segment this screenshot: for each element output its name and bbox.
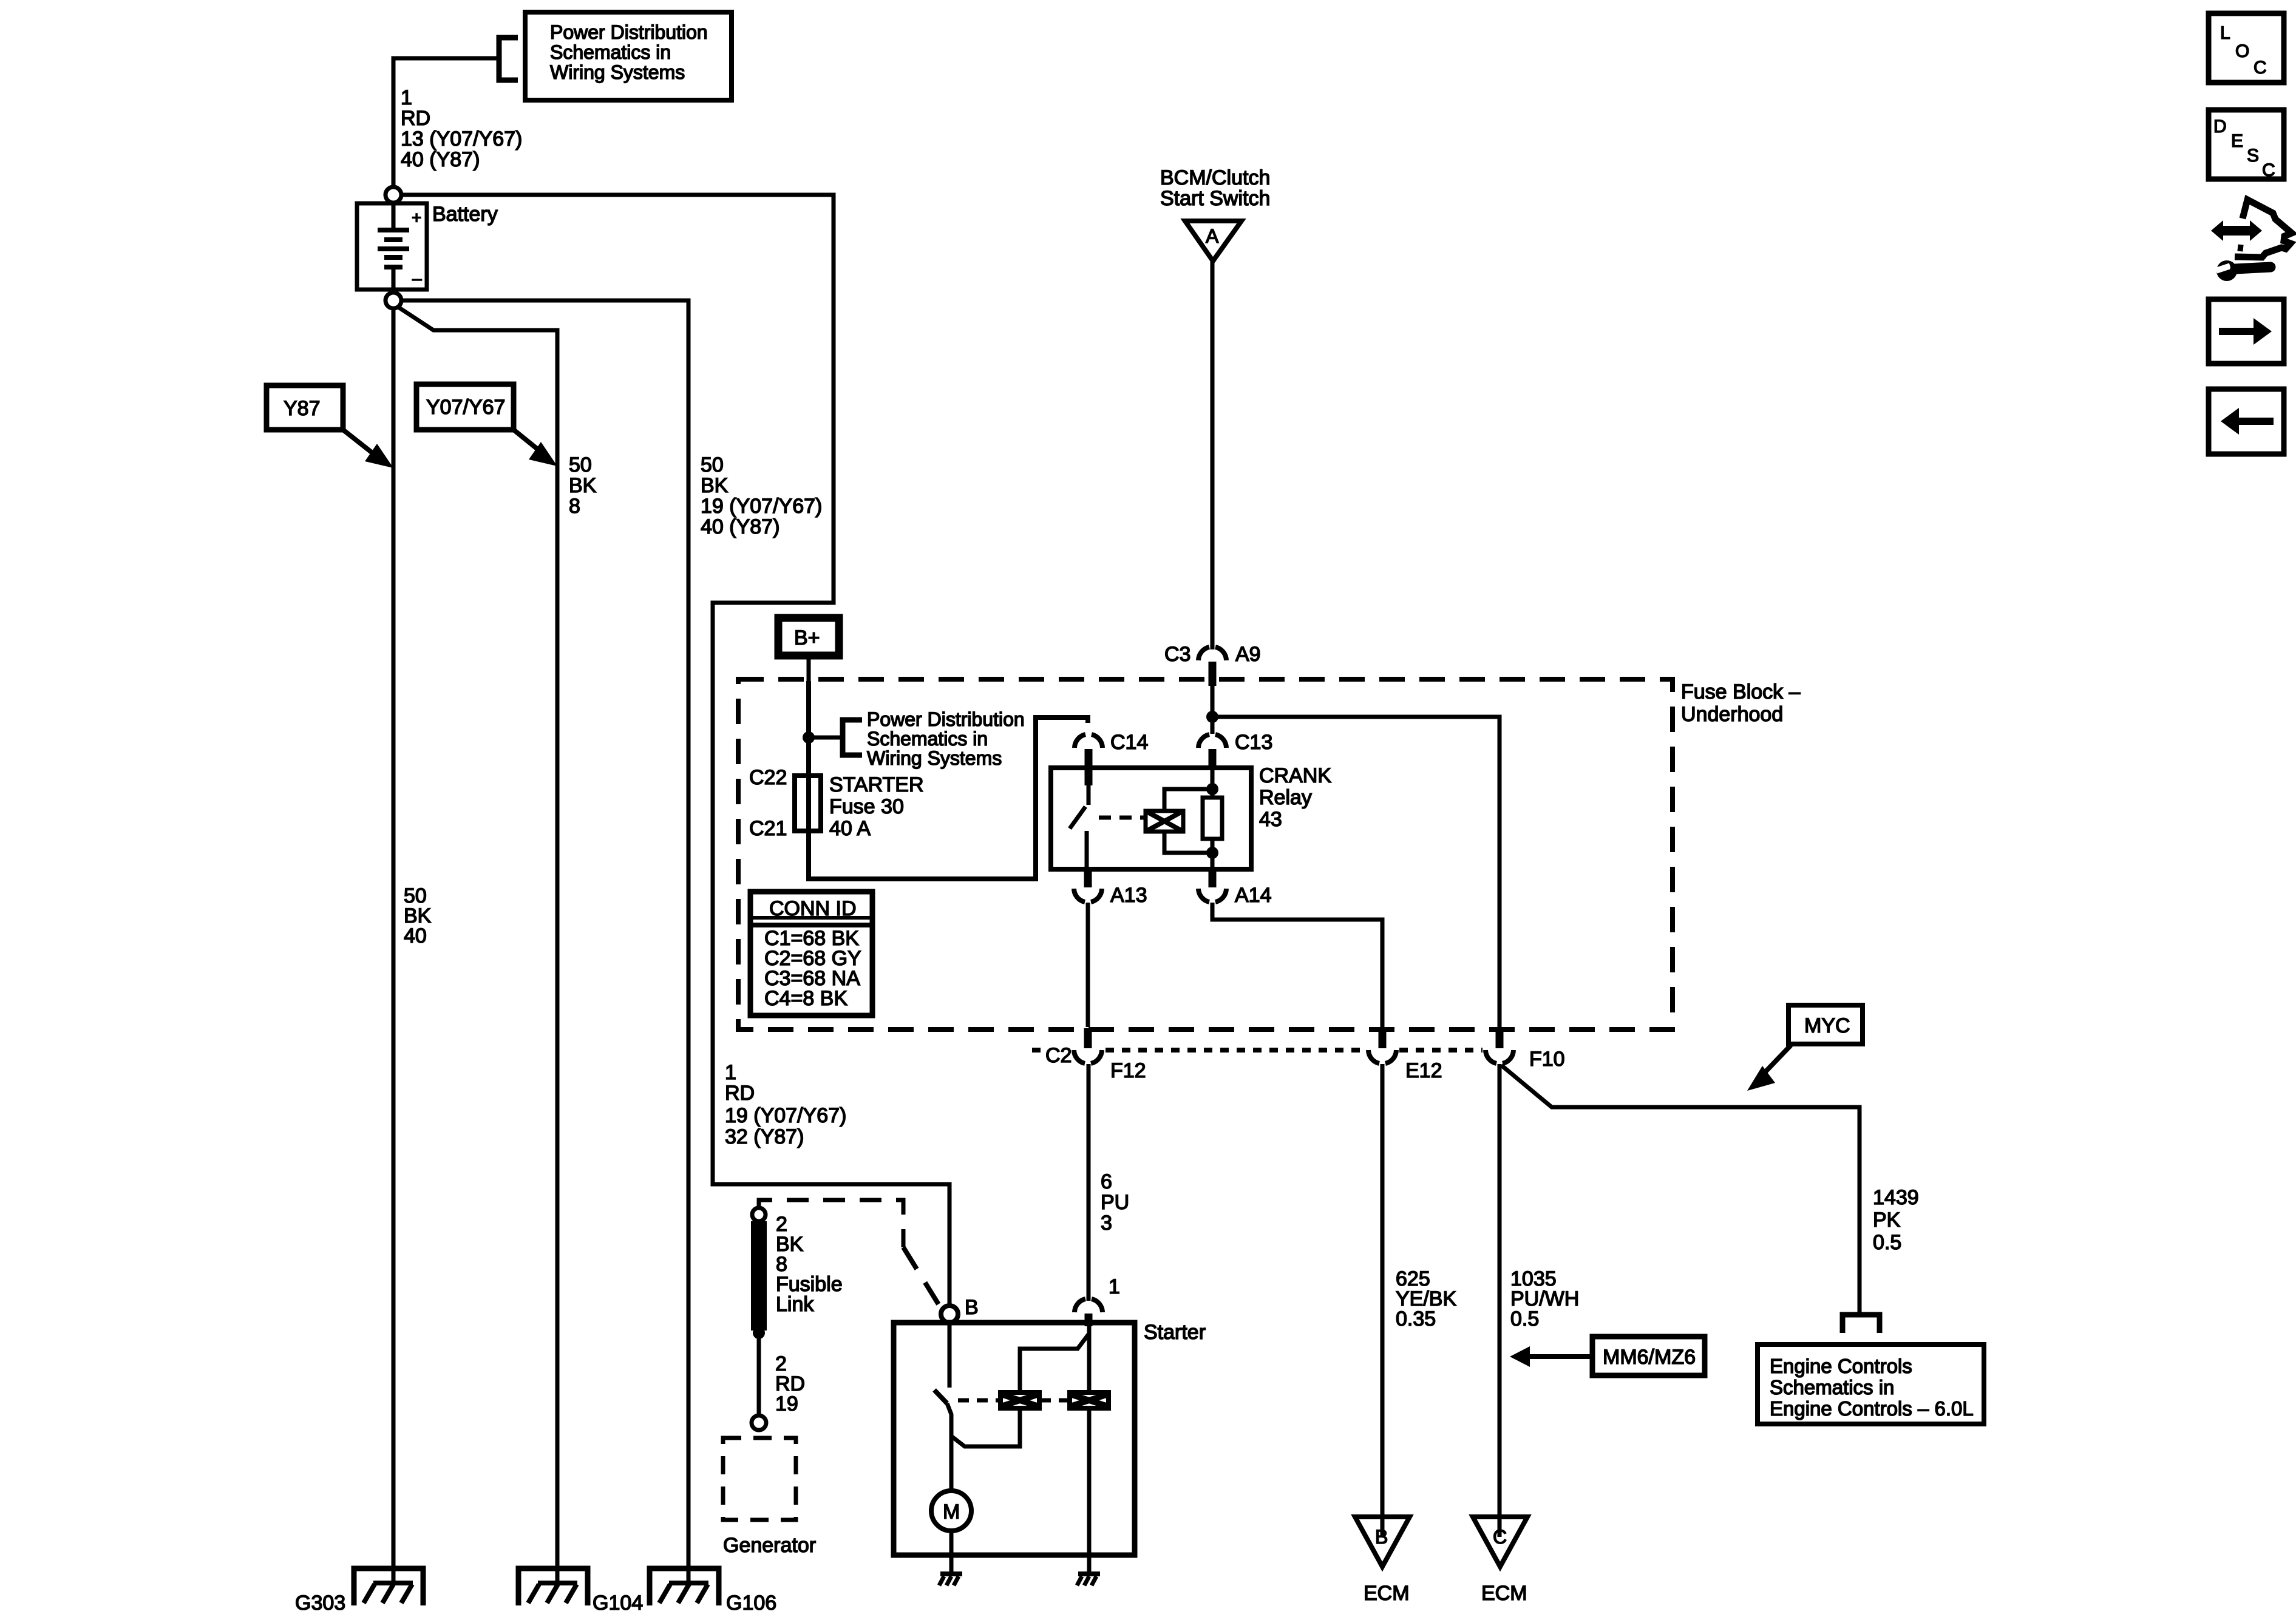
svg-text:M: M bbox=[943, 1500, 960, 1524]
label 2 RD 19 bbox=[775, 1352, 805, 1415]
wire F10 down to C ECM bbox=[1498, 1064, 1502, 1537]
wire terminal 1 into solenoid coils bbox=[1020, 1326, 1089, 1392]
wire pull-in coil to motor node bbox=[951, 1409, 1020, 1446]
svg-text:6: 6 bbox=[1101, 1170, 1112, 1193]
svg-text:A13: A13 bbox=[1110, 884, 1147, 907]
connector A13 bbox=[1074, 869, 1147, 907]
svg-text:Relay: Relay bbox=[1259, 786, 1312, 809]
icon vehicle outline with double arrow and wrench bbox=[2211, 200, 2292, 281]
svg-text:B: B bbox=[1375, 1526, 1388, 1548]
wire E12 down to B ECM bbox=[1381, 1064, 1385, 1537]
wire A14 to E12 drop bbox=[1212, 903, 1382, 1027]
off-page triangle B (ECM) bbox=[1355, 1517, 1410, 1605]
connector 1 (starter solenoid terminal) bbox=[1075, 1275, 1120, 1326]
svg-text:Starter: Starter bbox=[1144, 1321, 1206, 1344]
wire B+ down through fuse bbox=[806, 681, 811, 776]
tag MYC with arrow bbox=[1747, 1005, 1863, 1091]
wire battery positive to B+ feed (right and down and left and down to starter B) bbox=[401, 195, 949, 1306]
svg-text:B: B bbox=[965, 1296, 979, 1319]
wire F10 branch to engine controls bbox=[1501, 1065, 1860, 1315]
ground G106 bbox=[650, 1568, 719, 1605]
svg-text:B+: B+ bbox=[794, 626, 820, 649]
svg-text:13 (Y07/Y67): 13 (Y07/Y67) bbox=[401, 127, 522, 151]
svg-text:MYC: MYC bbox=[1804, 1014, 1850, 1037]
svg-text:F10: F10 bbox=[1529, 1048, 1565, 1071]
reference box: Engine Controls Schematics in Engine Controls - 6.0L bbox=[1758, 1344, 1984, 1424]
svg-text:Link: Link bbox=[776, 1293, 814, 1316]
connector C13 bbox=[1198, 731, 1272, 768]
relay actuation dashed link bbox=[1099, 816, 1146, 820]
svg-text:0.5: 0.5 bbox=[1510, 1307, 1539, 1331]
svg-text:Start Switch: Start Switch bbox=[1160, 187, 1270, 210]
svg-text:A9: A9 bbox=[1235, 643, 1261, 666]
connector C3/A9 bbox=[1164, 643, 1261, 686]
starter solenoid actuation dashes bbox=[958, 1398, 1069, 1403]
wire junction to bracket bbox=[809, 736, 843, 740]
svg-text:C22: C22 bbox=[749, 766, 787, 789]
BCM/Clutch Start Switch label bbox=[1160, 166, 1270, 210]
junction nodes in relay bbox=[1206, 783, 1218, 795]
icon forward arrow box bbox=[2209, 299, 2284, 364]
svg-text:E12: E12 bbox=[1405, 1059, 1442, 1082]
tag Y87 with arrow bbox=[267, 385, 393, 468]
svg-text:PU: PU bbox=[1101, 1191, 1129, 1214]
generator node circle bbox=[752, 1415, 766, 1430]
svg-text:Generator: Generator bbox=[723, 1534, 816, 1557]
icon back arrow box bbox=[2209, 389, 2284, 454]
wire label 1035 PU/WH 0.5 bbox=[1510, 1267, 1579, 1331]
svg-text:C2: C2 bbox=[1045, 1044, 1072, 1067]
wire label 50 BK 8 (G104 wire) bbox=[569, 453, 597, 518]
starter box bbox=[894, 1323, 1135, 1555]
wire junction to F10 drop bbox=[1212, 717, 1500, 1027]
tag MM6/MZ6 with arrow bbox=[1510, 1337, 1705, 1375]
wire battery negative to G104 (diagonal, right, down) bbox=[398, 307, 557, 1583]
reference text: Power Distribution Schematics in Wiring Systems (fuse block) bbox=[867, 708, 1025, 769]
fuse block underhood dashed border bbox=[738, 679, 1673, 1029]
starter B node circle bbox=[941, 1306, 958, 1323]
bracket to Power Distribution schematic (top) bbox=[499, 38, 518, 80]
svg-text:G303: G303 bbox=[295, 1592, 345, 1615]
label 2 BK 8 Fusible Link bbox=[776, 1213, 843, 1316]
svg-text:8: 8 bbox=[569, 495, 580, 518]
junction node on fuse feed bbox=[803, 731, 815, 744]
svg-text:CRANK: CRANK bbox=[1259, 764, 1331, 787]
ground at starter motor bbox=[939, 1555, 962, 1585]
svg-text:50: 50 bbox=[569, 453, 592, 476]
svg-text:D: D bbox=[2213, 117, 2227, 137]
svg-text:G104: G104 bbox=[593, 1592, 643, 1615]
svg-text:Wiring Systems: Wiring Systems bbox=[550, 61, 685, 83]
svg-text:0.35: 0.35 bbox=[1396, 1307, 1436, 1331]
svg-text:C4=8 BK: C4=8 BK bbox=[764, 987, 847, 1010]
svg-text:ECM: ECM bbox=[1364, 1582, 1410, 1605]
wire battery negative to G106 (right then down) bbox=[401, 300, 688, 1583]
svg-text:Schematics in: Schematics in bbox=[550, 41, 671, 63]
svg-text:C13: C13 bbox=[1235, 731, 1272, 754]
fusible link node circle (top) bbox=[752, 1208, 766, 1221]
svg-text:Power Distribution: Power Distribution bbox=[867, 708, 1025, 730]
wire C2 down to starter terminal 1 bbox=[1087, 1064, 1091, 1301]
wire label 50 BK 40 (G303 wire) bbox=[404, 884, 432, 947]
wire label 1 RD 13 (Y07/Y67) 40 (Y87) bbox=[401, 86, 522, 171]
svg-text:STARTER: STARTER bbox=[829, 773, 924, 796]
svg-text:Y87: Y87 bbox=[284, 397, 321, 420]
svg-text:Power Distribution: Power Distribution bbox=[550, 21, 708, 43]
svg-text:19 (Y07/Y67): 19 (Y07/Y67) bbox=[725, 1104, 846, 1127]
wire battery negative down to G303 bbox=[392, 308, 396, 1583]
label Fuse Block - Underhood bbox=[1681, 680, 1801, 726]
svg-text:0.5: 0.5 bbox=[1873, 1231, 1901, 1254]
svg-text:BK: BK bbox=[569, 474, 597, 497]
junction node BCM branch bbox=[1206, 711, 1218, 723]
generator dashed box bbox=[723, 1438, 796, 1520]
svg-text:MM6/MZ6: MM6/MZ6 bbox=[1603, 1346, 1696, 1369]
svg-text:O: O bbox=[2235, 41, 2249, 61]
svg-text:C3: C3 bbox=[1164, 643, 1190, 666]
svg-text:F12: F12 bbox=[1110, 1059, 1146, 1082]
wire fuse output to relay C14 bbox=[809, 717, 1088, 879]
starter motor M bbox=[931, 1491, 971, 1555]
svg-text:RD: RD bbox=[725, 1082, 755, 1105]
svg-text:G106: G106 bbox=[726, 1592, 776, 1615]
svg-text:CONN ID: CONN ID bbox=[769, 897, 857, 920]
svg-text:1: 1 bbox=[725, 1061, 736, 1084]
svg-text:Y07/Y67: Y07/Y67 bbox=[426, 396, 505, 419]
svg-text:32 (Y87): 32 (Y87) bbox=[725, 1125, 804, 1148]
off-page triangle A (BCM/Clutch Start Switch) bbox=[1185, 221, 1241, 261]
connector C2/F12 bbox=[1045, 1028, 1146, 1082]
wire label 1439 PK 0.5 bbox=[1873, 1186, 1919, 1254]
svg-text:50: 50 bbox=[701, 453, 724, 476]
relay switch bbox=[1070, 785, 1089, 869]
wire C3 to junction bbox=[1211, 686, 1215, 734]
svg-text:L: L bbox=[2220, 23, 2230, 43]
svg-text:1439: 1439 bbox=[1873, 1186, 1919, 1209]
wire label 50 BK 19 (Y07/Y67) 40 (Y87) (G106 wire) bbox=[701, 453, 822, 538]
dashed wire generator to starter B node bbox=[759, 1200, 942, 1309]
svg-text:+: + bbox=[412, 208, 421, 227]
off-page triangle C (ECM) bbox=[1473, 1517, 1527, 1605]
tag Y07/Y67 with arrow bbox=[416, 384, 557, 466]
bracket to Engine Controls schematic bbox=[1843, 1315, 1880, 1333]
svg-text:Fuse 30: Fuse 30 bbox=[829, 795, 904, 818]
svg-text:C: C bbox=[2262, 160, 2275, 180]
svg-text:–: – bbox=[412, 269, 422, 288]
starter solenoid switch bbox=[934, 1323, 951, 1491]
ground G303 bbox=[354, 1568, 423, 1605]
connector F10 bbox=[1486, 1028, 1565, 1071]
svg-text:Engine Controls – 6.0L: Engine Controls – 6.0L bbox=[1770, 1397, 1974, 1420]
svg-text:Underhood: Underhood bbox=[1681, 703, 1783, 726]
svg-text:Battery: Battery bbox=[432, 203, 498, 226]
svg-text:RD: RD bbox=[401, 107, 430, 130]
junction node below fusible link bbox=[753, 1327, 765, 1339]
svg-text:E: E bbox=[2231, 131, 2243, 151]
svg-text:C: C bbox=[1493, 1526, 1507, 1548]
icon DESC box bbox=[2209, 110, 2284, 180]
connector A14 bbox=[1198, 869, 1272, 907]
svg-text:1: 1 bbox=[1109, 1275, 1120, 1298]
svg-text:BK: BK bbox=[701, 474, 729, 497]
relay coil bbox=[1146, 789, 1212, 853]
wire battery positive up to power distribution bracket bbox=[393, 58, 499, 188]
svg-text:S: S bbox=[2247, 146, 2259, 166]
node battery negative terminal bbox=[385, 293, 401, 308]
connector row dotted line bbox=[1032, 1048, 1483, 1053]
fusible link element bbox=[751, 1221, 767, 1331]
svg-text:19 (Y07/Y67): 19 (Y07/Y67) bbox=[701, 495, 822, 518]
svg-text:19: 19 bbox=[775, 1392, 798, 1415]
starter pull-in coil bbox=[998, 1390, 1042, 1411]
wire label 6 PU 3 bbox=[1101, 1170, 1129, 1235]
svg-text:1: 1 bbox=[401, 86, 412, 109]
svg-text:Wiring Systems: Wiring Systems bbox=[867, 747, 1002, 769]
conn id table bbox=[750, 892, 872, 1015]
svg-text:Engine Controls: Engine Controls bbox=[1770, 1355, 1912, 1377]
svg-text:BCM/Clutch: BCM/Clutch bbox=[1160, 166, 1270, 189]
wire label 625 YE/BK 0.35 bbox=[1396, 1267, 1456, 1331]
wire hold-in coil to ground bbox=[1087, 1409, 1092, 1555]
wire A13 down to C2 bbox=[1086, 903, 1090, 1027]
reference box: Power Distribution Schematics in Wiring Systems (top) bbox=[525, 12, 732, 100]
wire fusible link to generator bbox=[757, 1333, 761, 1415]
svg-text:43: 43 bbox=[1259, 808, 1282, 831]
svg-text:Schematics in: Schematics in bbox=[1770, 1376, 1894, 1398]
svg-text:C21: C21 bbox=[749, 817, 787, 840]
svg-text:40 A: 40 A bbox=[829, 817, 871, 840]
wire BCM down to C3/A9 bbox=[1211, 261, 1215, 649]
svg-text:A14: A14 bbox=[1235, 884, 1272, 907]
ground G104 bbox=[518, 1568, 588, 1605]
B+ terminal tag bbox=[778, 618, 839, 681]
svg-text:PK: PK bbox=[1873, 1209, 1901, 1232]
svg-text:A: A bbox=[1206, 225, 1219, 247]
svg-text:40 (Y87): 40 (Y87) bbox=[701, 515, 779, 538]
starter hold-in coil bbox=[1067, 1390, 1111, 1411]
connector C14 bbox=[1075, 731, 1148, 785]
relay CRANK Relay 43 box bbox=[1051, 768, 1251, 869]
connector E12 bbox=[1368, 1028, 1442, 1082]
bracket to Power Distribution schematic (fuse block) bbox=[843, 720, 862, 755]
node battery positive terminal bbox=[385, 187, 401, 203]
label CRANK Relay 43 bbox=[1259, 764, 1331, 831]
relay resistor bbox=[1203, 768, 1222, 869]
svg-text:40: 40 bbox=[404, 924, 427, 947]
svg-text:40 (Y87): 40 (Y87) bbox=[401, 148, 480, 171]
svg-text:3: 3 bbox=[1101, 1212, 1112, 1235]
wire label 1 RD 19 (Y07/Y67) 32 (Y87) bbox=[725, 1061, 846, 1148]
ground at starter solenoid bbox=[1077, 1555, 1100, 1585]
fuse STARTER Fuse 30 40 A bbox=[795, 773, 924, 840]
svg-text:C14: C14 bbox=[1110, 731, 1148, 754]
svg-text:Schematics in: Schematics in bbox=[867, 728, 988, 750]
svg-text:Fuse Block –: Fuse Block – bbox=[1681, 680, 1801, 703]
icon LOC box bbox=[2209, 13, 2284, 83]
battery B1 bbox=[357, 203, 427, 290]
svg-text:ECM: ECM bbox=[1481, 1582, 1527, 1605]
svg-text:C: C bbox=[2254, 58, 2267, 78]
